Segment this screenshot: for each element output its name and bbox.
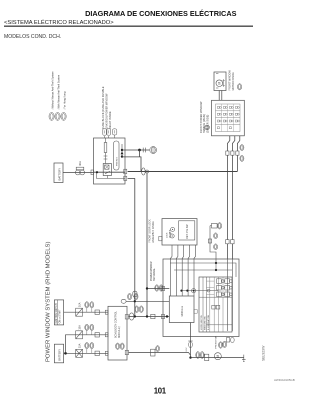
B2 switch contact upper	[171, 227, 175, 231]
module right pin stub	[194, 310, 197, 314]
Wb end connector diamond	[121, 299, 126, 303]
inline connector mid row	[95, 333, 99, 337]
svg-text:MOTOR D/SIDE: MOTOR D/SIDE	[232, 72, 235, 91]
wire BCM lower to motor	[129, 353, 191, 356]
junction S1/H1	[215, 262, 217, 264]
junction V1/Wb	[134, 300, 136, 302]
svg-text:SWITCH (MAIN): SWITCH (MAIN)	[202, 114, 206, 133]
connector row tag lower	[240, 155, 244, 161]
B2 label text	[149, 219, 155, 243]
svg-text:15A: 15A	[79, 325, 82, 330]
legend option symbol 2	[55, 112, 60, 120]
junction H3 b	[186, 290, 188, 292]
inline connector oval on bus	[142, 168, 146, 175]
five wires B2 to module	[171, 245, 196, 296]
svg-text:MODULE): MODULE)	[118, 326, 121, 338]
main switch connector tag D7	[204, 125, 210, 129]
legend option symbol 1	[49, 112, 54, 120]
svg-text:<SISTEMA ELÉCTRICO RELACIONADO: <SISTEMA ELÉCTRICO RELACIONADO>	[4, 19, 114, 26]
contact cluster row2	[217, 285, 233, 290]
inline connector D/D pin b	[231, 240, 234, 244]
tag oval on lower wire	[156, 346, 160, 352]
grid label divider	[203, 277, 207, 332]
fuse block label text	[101, 86, 112, 129]
B2 switch contact lower	[169, 232, 174, 238]
junction V2/Wa	[146, 287, 148, 289]
motor label text	[229, 70, 235, 91]
wire output 2	[232, 136, 234, 151]
inline connector D/D pin a	[226, 240, 229, 244]
contact cluster row1	[217, 279, 233, 284]
pin bus output	[124, 169, 127, 174]
pin BCM right upper	[125, 315, 128, 319]
battery B1	[54, 163, 63, 183]
bus junction ring	[146, 170, 149, 173]
pin assembly left lower	[162, 314, 165, 318]
node ring at grid edge	[207, 289, 210, 292]
B2 inner box	[179, 221, 195, 240]
svg-text:SEL923W: SEL923W	[262, 345, 266, 361]
junction H3 a	[180, 290, 182, 292]
pin top tag left	[105, 135, 115, 138]
junction node lower	[121, 155, 123, 157]
relay body strip	[114, 141, 119, 170]
pin assembly left upper	[162, 286, 165, 290]
junction battery riser	[64, 352, 67, 355]
module box PW module	[169, 296, 194, 323]
key cylinder sub-circuit S1 connector	[210, 223, 217, 228]
pin battery input	[91, 170, 94, 175]
Wc oval pair above	[135, 306, 144, 313]
pin BCM ignition	[105, 310, 108, 314]
internal wire relay row	[94, 171, 126, 173]
svg-text:SW SIGNAL: SW SIGNAL	[153, 268, 156, 281]
legend option symbol 3	[61, 112, 66, 120]
junction node upper	[121, 149, 123, 151]
inline connector ignition row	[95, 310, 99, 314]
wire sw2 down	[231, 155, 233, 239]
S1 wire down	[210, 226, 216, 263]
fuse block connector tag E2	[112, 129, 116, 135]
battery B2 box	[54, 344, 63, 363]
contact cluster row3	[217, 292, 233, 297]
wire S1 H1 to H2	[215, 263, 217, 270]
svg-text:: For Hong Kong: : For Hong Kong	[63, 91, 66, 110]
fuse block (FFB) box	[94, 138, 126, 184]
inline connector row pin 3	[236, 151, 239, 155]
inline connector on lower wire	[151, 349, 155, 356]
switch contact grid box	[199, 277, 232, 332]
grid horizontal divider	[199, 297, 232, 325]
connector ticks on ground wire	[143, 148, 145, 153]
F2 tag ovals	[85, 324, 94, 335]
junction V2/Wc	[146, 315, 148, 317]
Wa oval pair	[155, 285, 163, 291]
wire sw1 down-left	[226, 155, 228, 239]
wire battery row	[64, 352, 108, 354]
wire Wb stub	[126, 300, 169, 302]
svg-text:LOCK: LOCK	[167, 232, 169, 238]
svg-text:LINK BOX) POWER WINDOW: LINK BOX) POWER WINDOW	[105, 93, 109, 129]
inline connector row pin 1	[226, 151, 229, 155]
wires right column inside assembly	[227, 259, 232, 331]
wire branch from ground node down	[122, 150, 141, 172]
pin lower output	[124, 176, 127, 180]
wire ground run	[122, 149, 149, 151]
wire sw3 to bus	[236, 155, 238, 171]
svg-text:10A: 10A	[79, 302, 82, 307]
svg-text:B/W: B/W	[186, 348, 188, 352]
door lock assembly box B2	[162, 219, 197, 245]
main power bus wire	[128, 171, 238, 173]
svg-text:ASSEMBLY D/SIDE: ASSEMBLY D/SIDE	[152, 221, 155, 243]
fuse F inside block	[104, 138, 108, 164]
svg-text:WINDOW SW: WINDOW SW	[205, 315, 207, 330]
wire Wa from V2 to assembly	[147, 288, 169, 290]
wire battery to fuse block	[63, 172, 94, 174]
svg-text:MODULE: MODULE	[181, 305, 184, 316]
svg-text:RELAY INSIDE: RELAY INSIDE	[108, 111, 112, 129]
grid label text	[201, 314, 210, 330]
Wc inline connector	[151, 314, 155, 318]
inline connector on V1	[133, 291, 137, 297]
S1 oval b	[214, 244, 218, 250]
front window motor driver side M1	[214, 72, 226, 91]
BCM body control module box	[108, 306, 127, 360]
F1 tag ovals	[85, 302, 94, 313]
fusible link FL	[75, 167, 84, 175]
inline connector below assembly	[188, 341, 193, 348]
svg-text:: With Nissan Anti-Theft Syste: : With Nissan Anti-Theft System	[57, 75, 60, 110]
svg-text:M: M	[217, 82, 221, 85]
inline connector battery row	[95, 351, 99, 355]
passenger window motor M2	[214, 353, 221, 360]
node ring with dot	[192, 289, 196, 293]
svg-text:ON or START: ON or START	[58, 309, 61, 324]
svg-text:ILLUMINATION: ILLUMINATION	[207, 314, 210, 330]
svg-text:BATTERY: BATTERY	[58, 168, 62, 181]
main switch label text	[199, 101, 210, 133]
fuse F3	[76, 349, 83, 357]
internal node wire right column	[121, 144, 123, 157]
wire output 3	[237, 136, 239, 151]
S1 oval a	[214, 233, 218, 239]
junction Wc at module	[166, 315, 168, 317]
pin BCM battery	[105, 351, 108, 355]
junction inside fuse block	[96, 171, 98, 173]
fuse F1	[76, 308, 83, 316]
svg-text:FUSE BLOCK (FUSE AND FUSIBLE: FUSE BLOCK (FUSE AND FUSIBLE	[101, 86, 105, 129]
lock switch contact	[212, 305, 220, 309]
svg-text:30A: 30A	[78, 161, 82, 166]
wire ignition row	[64, 311, 108, 313]
svg-text:POWER WINDOW: POWER WINDOW	[151, 261, 153, 281]
wire label text mid-left a	[151, 261, 156, 281]
connector row tag upper	[240, 145, 244, 151]
wire module down to motor row	[190, 323, 192, 358]
grid contact row stubs	[207, 281, 215, 294]
Wc connector diamond	[129, 313, 134, 320]
svg-text:BATTERY: BATTERY	[57, 349, 61, 361]
wire H3 row	[182, 290, 219, 292]
ground passenger motor	[242, 355, 246, 362]
svg-text:(DRIVER SIDE): (DRIVER SIDE)	[206, 115, 210, 133]
wires motor to main switch	[219, 91, 222, 101]
fuse block connector tag E1	[103, 129, 111, 135]
junction ground branch	[138, 149, 141, 152]
ignition switch box	[54, 300, 63, 325]
svg-text:FRONT POWER WINDOW: FRONT POWER WINDOW	[199, 101, 203, 133]
svg-text:15A: 15A	[79, 343, 82, 348]
B2 small text	[167, 229, 172, 238]
svg-text:AWDIA0105GB: AWDIA0105GB	[274, 378, 295, 382]
assembly inner wire H1	[170, 263, 236, 277]
motor tag ovals	[219, 341, 227, 348]
BCM label	[115, 310, 121, 338]
passenger motor row wire	[191, 357, 244, 359]
wire relay lower exit	[128, 177, 135, 179]
option triangle marker	[121, 152, 124, 155]
svg-text:KEY CYL SW: KEY CYL SW	[187, 224, 189, 239]
wire riser to mid row	[66, 335, 109, 354]
S1 tag oval	[218, 223, 222, 229]
F3 tag ovals	[85, 343, 94, 354]
junction at module drop	[189, 356, 191, 358]
svg-text:MODELOS COND. DCH.: MODELOS COND. DCH.	[4, 34, 61, 40]
assembly inner wire H2	[174, 269, 232, 271]
wire Wc BCM to module	[129, 316, 170, 318]
svg-text:IGNITION SWITCH: IGNITION SWITCH	[56, 303, 58, 323]
inline connector row pin 2	[231, 151, 234, 155]
small connector below assembly right	[226, 337, 234, 343]
svg-text:UNLOCK: UNLOCK	[169, 229, 171, 238]
wires main switch outputs	[227, 136, 229, 151]
motor row connector pair a	[196, 352, 204, 359]
svg-text:DIAGRAMA DE CONEXIONES ELÉCTRI: DIAGRAMA DE CONEXIONES ELÉCTRICAS	[85, 9, 236, 18]
power window main switch SW1	[212, 100, 245, 136]
pin BCM right lower	[125, 350, 128, 354]
wire vertical V1 to BCM area	[134, 178, 136, 316]
wire vertical V2	[146, 173, 148, 317]
passenger switch assembly outer box	[163, 259, 239, 337]
motor row connector pair b	[205, 354, 209, 360]
BCM tag ovals	[116, 343, 125, 349]
S1 inline connector	[208, 239, 211, 243]
grid vertical wires	[210, 277, 223, 332]
junction S1/H2	[215, 269, 217, 271]
motor connector tag D9	[238, 84, 242, 90]
fuse F2	[76, 331, 83, 339]
junction V1/Wc	[134, 315, 136, 317]
main switch inner contact grid	[216, 104, 241, 132]
svg-text:POWER WINDOW SYSTEM (RHD MODEL: POWER WINDOW SYSTEM (RHD MODELS)	[46, 242, 52, 362]
B2 left pin	[159, 236, 162, 240]
svg-text:P/W MOTOR: P/W MOTOR	[215, 335, 217, 348]
ground G1	[150, 147, 157, 154]
power window relay	[97, 164, 126, 179]
svg-text:: Without Nissan Anti-Theft Sy: : Without Nissan Anti-Theft System	[51, 71, 54, 110]
wires into passenger assembly	[227, 244, 232, 259]
svg-text:P/W RLY: P/W RLY	[116, 157, 118, 166]
svg-text:LOCK SWITCH: LOCK SWITCH	[201, 314, 203, 330]
Wb oval pair	[128, 293, 138, 299]
svg-text:M: M	[216, 355, 220, 358]
pin BCM mid	[105, 333, 108, 337]
svg-text:101: 101	[154, 386, 167, 395]
